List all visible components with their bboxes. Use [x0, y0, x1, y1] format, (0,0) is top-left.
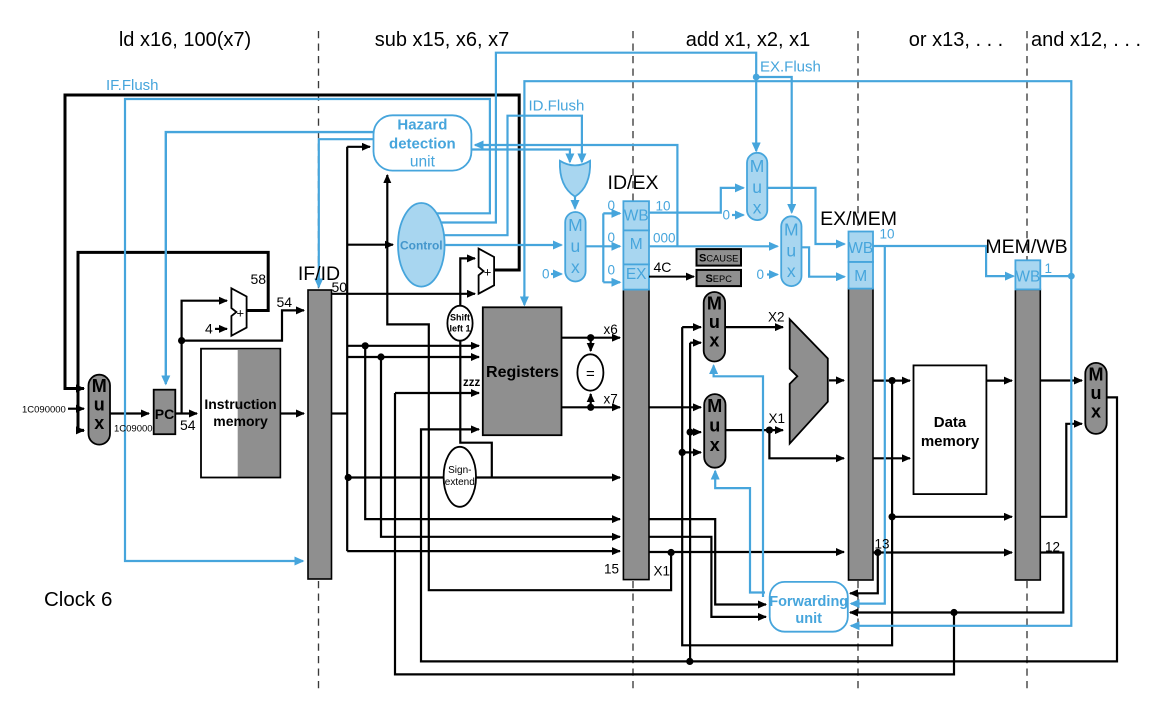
svg-text:Sign-: Sign-	[448, 465, 471, 476]
wire hazard detection to PC write	[166, 132, 374, 384]
wire ID/EX EX field to SEPC	[649, 276, 694, 278]
svg-text:or x13, . . .: or x13, . . .	[909, 29, 1003, 51]
wire forward riser V1	[682, 327, 892, 645]
wire IF/ID instruction stub	[332, 412, 347, 414]
wire instruction to hazard detection unit	[347, 146, 370, 148]
wire ID/EX rs2 to forwarding unit	[649, 537, 766, 617]
wire X1 down to EX/MEM write data	[769, 430, 844, 458]
mux1 control bubble	[565, 212, 585, 282]
svg-text:0: 0	[608, 263, 616, 278]
wire read data 2 to comparator	[590, 394, 592, 407]
data memory	[914, 365, 987, 494]
wire V1 into mux B input 3	[682, 451, 701, 453]
wire register 15 row to ID/EX	[347, 550, 620, 552]
junction MEM/WB WB	[1068, 273, 1075, 280]
wire mux2 zero input	[732, 214, 744, 216]
wire ID/EX M field to mux3	[649, 245, 778, 247]
svg-text:unit: unit	[795, 611, 822, 627]
wire rd row ID/EX to EX/MEM	[649, 551, 844, 553]
register SCAUSE	[697, 249, 742, 266]
svg-text:and x12, . . .: and x12, . . .	[1031, 29, 1141, 51]
svg-text:0: 0	[723, 208, 731, 223]
svg-text:x: x	[787, 261, 796, 281]
wire ALU result bypass to MEM/WB	[892, 516, 1012, 518]
svg-text:M: M	[568, 215, 583, 235]
wire ForwardA control	[714, 366, 763, 598]
wire instruction row to adder2	[332, 293, 475, 295]
forwarding unit	[770, 582, 848, 632]
junction read data 1	[587, 334, 594, 341]
PC register	[154, 390, 176, 435]
svg-text:ld x16, 100(x7): ld x16, 100(x7)	[119, 29, 251, 51]
svg-text:u: u	[1091, 383, 1102, 403]
svg-text:ID.Flush: ID.Flush	[529, 98, 585, 115]
svg-text:0: 0	[757, 267, 765, 282]
svg-text:memory: memory	[213, 413, 268, 429]
svg-text:x6: x6	[604, 322, 618, 337]
EX/MEM WB field	[849, 232, 874, 263]
wire mux1 output to ID/EX control fields	[586, 245, 604, 247]
svg-text:X2: X2	[768, 310, 785, 325]
ID/EX M field	[623, 230, 649, 264]
wire MEM/WB read data to final mux	[1040, 379, 1082, 381]
svg-text:Forwarding: Forwarding	[769, 594, 848, 610]
svg-text:u: u	[571, 236, 581, 256]
svg-text:54: 54	[180, 417, 196, 433]
wire EX.Flush branch to mux3	[756, 77, 792, 213]
wire constant 4 into adder1	[215, 328, 227, 330]
wire ID/EX rs1 to forwarding unit	[649, 519, 766, 604]
MEM/WB WB field	[1015, 260, 1040, 289]
junction read data 2	[587, 404, 594, 411]
junction rd X1 row	[668, 549, 675, 556]
wire immediate row to ID/EX	[348, 476, 620, 478]
wire control into M field	[603, 245, 620, 247]
wire instruction bus vertical	[346, 147, 348, 551]
wire rd field zigzag	[387, 294, 671, 590]
wire ID/EX WB field to mux2	[649, 188, 744, 213]
svg-text:EX.Flush: EX.Flush	[760, 59, 821, 76]
wire instruction memory output to IF/ID	[280, 412, 304, 414]
wire OR gate output to mux1	[574, 194, 576, 209]
wire 54 branch into IF/ID	[182, 310, 304, 340]
junction ALU result bypass	[889, 513, 896, 520]
junction rd 12	[950, 609, 957, 616]
svg-text:X1: X1	[769, 411, 786, 426]
wire control output to mux1	[430, 244, 562, 246]
svg-text:54: 54	[277, 294, 293, 310]
svg-text:unit: unit	[410, 154, 436, 171]
svg-text:x: x	[571, 257, 580, 277]
svg-text:PC: PC	[155, 406, 174, 422]
wire V2 into mux A input 2	[690, 342, 701, 344]
svg-text:0: 0	[608, 198, 616, 213]
svg-text:left 1: left 1	[449, 324, 470, 334]
junction EX.Flush	[753, 74, 760, 81]
wire ForwardB control	[715, 471, 765, 593]
adder branch target	[479, 249, 495, 294]
wire PC value riser to adder1	[182, 301, 227, 414]
svg-text:M: M	[630, 236, 643, 253]
junction PC value	[178, 337, 185, 344]
EX/MEM M field	[849, 262, 874, 289]
wire control into WB field	[603, 212, 620, 214]
svg-text:13: 13	[875, 537, 890, 552]
wire 1C090000 input to PC mux	[68, 408, 84, 410]
svg-text:Clock 6: Clock 6	[44, 588, 112, 611]
svg-text:4: 4	[205, 321, 213, 337]
svg-text:10: 10	[880, 227, 895, 242]
wire rd 13 down to forwarding unit	[850, 553, 878, 594]
wire write register zzz	[395, 392, 479, 394]
wire mux3 output to EX/MEM M	[802, 247, 845, 276]
wire IF.Flush	[125, 99, 490, 561]
wire ID/EX MemRead to hazard detection	[475, 145, 677, 246]
junction write-back V2	[686, 658, 693, 665]
mux2 EX flush WB	[747, 153, 767, 220]
wire V1 into mux A input 1	[682, 326, 701, 328]
svg-text:EX: EX	[626, 266, 647, 283]
wire mux B output to ALU	[726, 429, 784, 431]
svg-text:sub x15, x6, x7: sub x15, x6, x7	[375, 29, 510, 51]
wire shift-left-1 output to adder2	[460, 258, 475, 306]
svg-text:WB: WB	[848, 240, 873, 257]
junction rs1 tap	[362, 342, 369, 349]
ALU	[790, 319, 828, 443]
stage divider dashed line 2	[632, 31, 634, 692]
svg-text:zzz: zzz	[463, 377, 481, 389]
svg-text:ID/EX: ID/EX	[608, 172, 659, 194]
mux forward B	[704, 394, 725, 468]
junction X1 to EX/MEM	[766, 427, 773, 434]
wire hazard detection to IF/ID flush	[319, 139, 374, 287]
wire write register number return path	[395, 393, 954, 674]
svg-text:x7: x7	[604, 392, 618, 407]
wire hazard bottom riser	[386, 175, 388, 294]
wire mux2 output to EX/MEM WB	[767, 188, 844, 244]
wire read data 2 to ID/EX	[562, 406, 621, 408]
pipeline register ID/EX	[623, 290, 649, 580]
wire control into EX field	[603, 281, 620, 283]
svg-text:x: x	[709, 331, 719, 351]
wire EX/MEM address to data memory	[873, 380, 910, 382]
wire EX/MEM write data to data memory	[873, 457, 910, 459]
svg-text:Registers: Registers	[486, 364, 559, 381]
OR gate	[560, 161, 590, 197]
svg-text:SEPC: SEPC	[705, 273, 732, 285]
wire ID.Flush to OR gate	[432, 116, 582, 236]
svg-text:add x1, x2, x1: add x1, x2, x1	[686, 29, 811, 51]
svg-text:12: 12	[1045, 540, 1060, 555]
wire PC output to instruction memory	[175, 412, 197, 414]
wire read data 1 to ID/EX	[562, 337, 621, 339]
wire EX/MEM WB down to forwarding unit	[851, 246, 885, 604]
control unit	[398, 203, 445, 287]
hazard detection unit	[374, 115, 472, 170]
svg-text:Data: Data	[934, 414, 967, 431]
svg-text:+: +	[237, 306, 245, 321]
svg-text:u: u	[709, 312, 720, 332]
register SEPC	[697, 270, 742, 286]
wire ID.Flush long line to forwarding unit and registers	[524, 81, 1071, 626]
pipeline register IF/ID	[308, 290, 332, 579]
junction ALU result	[889, 377, 896, 384]
wire rd 13 row EX/MEM to MEM/WB	[873, 551, 1012, 553]
stage divider dashed line 3	[857, 31, 859, 692]
svg-text:u: u	[786, 240, 796, 260]
svg-text:Shift: Shift	[450, 313, 470, 323]
wire MEM/WB WB output	[1040, 275, 1071, 277]
svg-text:x: x	[710, 435, 720, 455]
ID/EX EX field	[623, 264, 649, 289]
wire rd 12 down to forwarding unit	[850, 553, 1063, 613]
svg-text:MEM/WB: MEM/WB	[985, 236, 1067, 258]
junction V2 mux B	[687, 429, 694, 436]
svg-text:1C090000: 1C090000	[22, 405, 66, 416]
wire forward riser V2	[689, 343, 691, 662]
svg-text:M: M	[854, 268, 867, 285]
stage divider dashed line 1	[318, 31, 320, 692]
svg-text:M: M	[750, 156, 765, 176]
comparator =	[577, 354, 603, 390]
shift left 1	[447, 306, 472, 341]
wire V2 into mux B input 2	[690, 431, 701, 433]
svg-text:50: 50	[332, 279, 348, 295]
wire rs2 field down to ID/EX	[381, 357, 620, 537]
svg-text:X1: X1	[654, 564, 671, 579]
svg-text:1C09000: 1C09000	[114, 424, 153, 435]
svg-text:15: 15	[604, 562, 619, 577]
mux3 EX flush M	[781, 216, 801, 286]
svg-text:Control: Control	[400, 239, 443, 253]
mux write back	[1085, 363, 1106, 434]
sign extend	[444, 447, 476, 507]
wire EX/MEM WB to MEM/WB WB	[873, 246, 1014, 276]
svg-text:Hazard: Hazard	[397, 117, 447, 134]
wire branch-target loop (adder2 out to PC mux)	[65, 95, 519, 389]
svg-text:WB: WB	[624, 208, 649, 225]
svg-text:10: 10	[656, 199, 671, 214]
svg-text:extend: extend	[445, 477, 475, 488]
wire instruction to control	[347, 244, 393, 246]
adder PC+4	[231, 288, 246, 336]
wire mux A output to ALU	[725, 326, 783, 328]
mux forward A	[704, 292, 725, 362]
svg-text:u: u	[709, 416, 720, 436]
wire rs1 field down to ID/EX	[365, 346, 620, 519]
svg-text:u: u	[752, 177, 762, 197]
wire read data 1 to comparator	[590, 338, 592, 351]
wire PC mux output to PC	[110, 412, 149, 414]
svg-text:0: 0	[608, 230, 616, 245]
stage divider dashed line 4	[1026, 31, 1028, 692]
svg-text:+: +	[484, 265, 492, 280]
svg-text:0: 0	[542, 267, 550, 282]
svg-text:x: x	[94, 413, 104, 433]
mux PC source	[89, 375, 111, 445]
svg-text:Instruction: Instruction	[204, 396, 276, 412]
pipeline register MEM/WB	[1015, 289, 1040, 580]
svg-text:1: 1	[1045, 261, 1053, 276]
junction immediate tap	[345, 474, 352, 481]
pipeline register EX/MEM	[849, 289, 874, 580]
wire ID/EX read data 2 to mux B	[649, 406, 701, 408]
wire EX.Flush	[428, 53, 756, 223]
registers	[483, 307, 562, 435]
wire MEM/WB ALU result to final mux	[1040, 424, 1082, 517]
svg-text:M: M	[707, 294, 722, 314]
svg-text:detection: detection	[389, 136, 456, 153]
svg-text:M: M	[784, 220, 799, 240]
junction rd 13	[874, 549, 881, 556]
wire write data return path	[421, 397, 1117, 661]
svg-text:IF.Flush: IF.Flush	[106, 77, 159, 94]
svg-text:000: 000	[653, 231, 676, 246]
svg-text:u: u	[94, 395, 105, 415]
wire control field riser	[602, 213, 604, 282]
svg-text:SCAUSE: SCAUSE	[699, 252, 738, 264]
svg-text:58: 58	[251, 271, 267, 287]
wire data memory output to MEM/WB	[986, 380, 1012, 382]
svg-text:WB: WB	[1015, 269, 1040, 286]
svg-text:memory: memory	[921, 433, 980, 450]
ID/EX WB field	[623, 201, 649, 230]
svg-text:=: =	[586, 366, 595, 383]
wire immediate zigzag to shift-left-1	[460, 341, 492, 478]
wire flush arrow into registers top	[523, 295, 525, 305]
junction rs2 tap	[377, 353, 384, 360]
svg-text:x: x	[1091, 402, 1101, 422]
wire mux3 zero input	[767, 273, 778, 275]
svg-text:x: x	[753, 198, 762, 218]
svg-text:M: M	[92, 376, 107, 396]
junction V1 mux B	[679, 449, 686, 456]
wire mux1 zero input	[551, 273, 562, 275]
wire PC+4 loop (adder1 out to PC mux)	[78, 252, 268, 430]
svg-text:M: M	[707, 396, 722, 416]
instruction memory	[201, 349, 280, 478]
wire ALU result to EX/MEM	[829, 379, 844, 381]
svg-text:M: M	[1089, 365, 1104, 385]
svg-text:4C: 4C	[654, 259, 672, 275]
wire hazard detection to OR gate	[471, 150, 570, 163]
wire read register 2	[347, 356, 479, 358]
wire read register 1	[347, 345, 479, 347]
